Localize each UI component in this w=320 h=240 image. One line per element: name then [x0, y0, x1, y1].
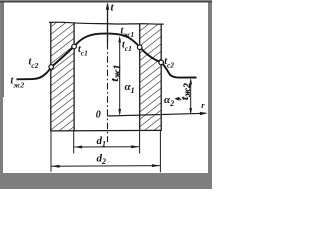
d1 dimension line — [74, 146, 139, 148]
page background — [0, 0, 212, 189]
node t_c2 right (circle) — [159, 60, 164, 65]
node t_c1 left (circle) — [72, 44, 77, 49]
right wall (hatched) — [140, 24, 162, 131]
t axis centerline (dash-dot) — [107, 43, 109, 142]
t axis arrowhead — [106, 2, 109, 10]
wavy break line at top of section — [49, 22, 164, 24]
scan margin strips — [0, 0, 3, 189]
d1 extension line left — [73, 131, 75, 154]
right wall outer edge — [160, 24, 162, 131]
r axis — [108, 113, 206, 116]
d1 extension line right — [139, 131, 141, 154]
left wall (hatched) — [51, 22, 75, 131]
temperature curve — [17, 34, 197, 80]
d2 extension line right — [159, 131, 161, 173]
bottom edge line of section — [50, 129, 162, 132]
d2 extension line left — [50, 131, 52, 172]
right wall inner edge — [139, 24, 141, 131]
node t_c1 right (circle) — [137, 45, 142, 50]
left wall outer edge — [50, 22, 52, 131]
alpha2 small arrow — [177, 98, 182, 100]
t_zh1 measure arrow (vertical double arrow) — [119, 38, 121, 114]
t axis (solid top part) — [107, 4, 109, 43]
left wall inner edge — [73, 22, 75, 131]
node t_c2 left (circle) — [49, 65, 54, 70]
t_zh2 measure arrow (vertical double arrow, right) — [190, 80, 192, 113]
svg-text:0: 0 — [96, 110, 101, 121]
r axis arrowhead — [200, 112, 208, 115]
d2 dimension line — [52, 165, 160, 168]
